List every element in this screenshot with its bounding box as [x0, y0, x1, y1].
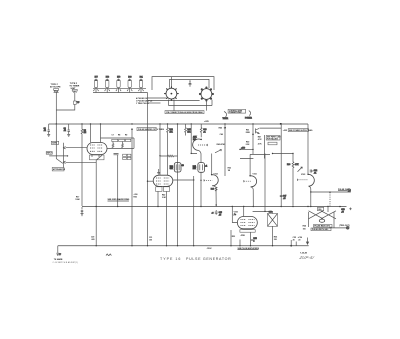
svg-text:B79: B79 [117, 77, 120, 79]
socket caption box [165, 111, 204, 114]
capacitor C6 between sockets [189, 80, 192, 86]
label bias [233, 213, 236, 215]
capacitor C56 [291, 237, 302, 246]
socket wiring loop inner [170, 79, 209, 88]
svg-text:ATTENUATOR: ATTENUATOR [53, 168, 66, 171]
neon lamp B78 [105, 77, 110, 93]
svg-text:TYPE 16: TYPE 16 [160, 257, 181, 261]
input label box [46, 152, 53, 155]
capacitor C11 [114, 154, 119, 207]
transistor Q1 cathode follower [256, 128, 260, 133]
wire T2 down [200, 172, 202, 206]
potentiometer arrow R61 [298, 167, 303, 172]
wire stub R53 [231, 230, 240, 246]
junction dots mid bus [96, 206, 329, 207]
svg-text:100K: 100K [75, 199, 80, 201]
node label 4-pulse out [136, 97, 149, 100]
node grid junction [159, 155, 160, 156]
svg-text:TP: TP [59, 254, 61, 256]
labels R45 [217, 127, 227, 146]
svg-text:B77: B77 [95, 77, 98, 79]
switch SW1 label box [51, 141, 58, 144]
wire dashed drop [329, 192, 330, 207]
svg-text:20: 20 [298, 239, 300, 241]
pointer curve power [245, 111, 252, 120]
wire V3B cathode [212, 186, 217, 207]
wire socket SO1 top feed [170, 77, 172, 88]
resistor R60 [287, 154, 299, 206]
resistor R35 [185, 124, 192, 135]
svg-text:C40: C40 [220, 133, 223, 136]
atten label box [52, 168, 66, 172]
svg-text:.05: .05 [341, 212, 344, 214]
svg-text:.05: .05 [219, 214, 222, 216]
wire long mid [193, 176, 195, 246]
tube T2 [193, 163, 207, 173]
connector J1 [54, 89, 59, 93]
resistor R30 horizontal [160, 155, 178, 157]
wire V2 grid [159, 124, 161, 175]
svg-text:ZUP-5/: ZUP-5/ [298, 255, 315, 260]
resistor R64 [303, 225, 306, 231]
capacitor C62 [310, 170, 317, 175]
neon lamp B79 [116, 77, 121, 93]
svg-text:220: 220 [274, 239, 277, 241]
node see waveform note [108, 198, 131, 201]
wire J2 to J1 line [56, 104, 75, 110]
svg-text:C-10 SWITCH B ADJUST(1): C-10 SWITCH B ADJUST(1) [53, 261, 79, 264]
date [300, 251, 308, 254]
resistor R50 [246, 141, 250, 145]
wire V6 grid up [243, 207, 245, 217]
switch SW1 [63, 143, 65, 168]
svg-text:B78: B78 [106, 77, 109, 79]
tube V1 [87, 143, 107, 155]
svg-text:220K: 220K [246, 132, 251, 134]
title [160, 257, 231, 261]
capacitor C17 [81, 207, 83, 213]
svg-text:B81: B81 [140, 77, 143, 79]
svg-text:+3: +3 [212, 212, 214, 214]
wire bottom bus [58, 245, 309, 247]
svg-text:R25: R25 [134, 196, 137, 198]
ground [157, 169, 160, 175]
power note box [228, 109, 246, 114]
node label trig pulse [136, 103, 150, 105]
svg-text:R9: R9 [125, 135, 127, 137]
svg-text:UNIT: UNIT [71, 88, 77, 90]
svg-text:PULSE RATE CPS: PULSE RATE CPS [314, 225, 330, 228]
pointer curve timer [223, 112, 229, 121]
svg-text:AT SCOPE: AT SCOPE [50, 86, 61, 89]
terminal plus [339, 206, 352, 214]
capacitor C47 [280, 194, 286, 199]
wire C49 down [272, 226, 274, 245]
plate wire lower [107, 138, 134, 148]
svg-text:PULSE WIDTH SEC: PULSE WIDTH SEC [312, 229, 329, 231]
svg-text:V193: V193 [234, 211, 238, 213]
connector pulse out [348, 189, 351, 192]
capacitor C55 [293, 237, 296, 241]
lamp bus upper [93, 88, 146, 90]
wire V6 cathode down [250, 232, 252, 246]
neon lamp B77 [93, 77, 98, 93]
wire V2 left [147, 181, 153, 182]
svg-text:.005: .005 [91, 239, 95, 241]
wire mid vertical [177, 124, 179, 246]
svg-text:S50: S50 [318, 209, 321, 211]
junction dots bottom bus [96, 245, 293, 247]
svg-text:+1: +1 [205, 166, 207, 168]
switch S50 box [318, 207, 324, 211]
neon lamp B81 [138, 77, 143, 93]
svg-text:.05: .05 [283, 198, 286, 200]
wire V5 output [309, 186, 311, 206]
label box pulse width [311, 228, 331, 231]
lamp bus lower [93, 92, 148, 94]
connector J1 label [50, 84, 61, 88]
capacitor C45 [212, 210, 222, 216]
svg-text:R43: R43 [211, 187, 214, 190]
svg-text:FOR VALUES: FOR VALUES [267, 137, 279, 140]
net +225 rail [49, 121, 308, 124]
wire SO2 pin down [205, 100, 207, 110]
wire socket lower bus [169, 100, 213, 106]
socket SO2 [199, 87, 214, 102]
svg-text:TIMER: TIMER [223, 118, 229, 120]
resistor R53 [232, 234, 246, 238]
svg-text:R45: R45 [219, 127, 222, 130]
svg-text:.01: .01 [44, 130, 47, 132]
component labels C7 R8 [112, 135, 128, 137]
tube V3B half [200, 154, 218, 186]
svg-text:B80: B80 [128, 77, 131, 79]
node label pulse samples [136, 99, 153, 102]
power supply note box [283, 129, 313, 133]
net -150V [207, 248, 213, 250]
svg-text:100: 100 [149, 239, 152, 241]
wire cathode follower top [252, 124, 254, 154]
signature [298, 255, 315, 260]
neon lamp B80 [127, 77, 132, 93]
svg-text:V161: V161 [253, 174, 257, 176]
svg-text:R64: R64 [303, 225, 306, 228]
tube T1 [170, 163, 184, 172]
svg-text:V183: V183 [301, 174, 305, 176]
wire lamp return [147, 93, 149, 246]
svg-text:.01: .01 [314, 173, 317, 175]
ground chassis [56, 246, 61, 256]
svg-text:POWER: POWER [245, 118, 252, 120]
wire B+ drop [280, 124, 282, 207]
svg-text:-150V: -150V [207, 248, 213, 250]
resistor R17 [75, 196, 80, 200]
connector J2 [72, 89, 77, 92]
wire mid right vertical [264, 154, 265, 213]
wire mid bus [82, 206, 347, 208]
svg-text:V152: V152 [214, 174, 218, 176]
tube V6 [237, 217, 257, 229]
resistor R8 [112, 142, 114, 149]
wire rail end drop [307, 124, 309, 174]
parts list box [266, 136, 281, 141]
resistor R37 [200, 124, 206, 137]
crystal box C49 [268, 211, 278, 227]
svg-text:100: 100 [303, 228, 306, 230]
resistor R52 [228, 168, 231, 172]
terminal boxes [123, 154, 131, 159]
ground note [53, 258, 79, 264]
ground [81, 214, 84, 216]
wire V2 right [173, 179, 195, 180]
ground [67, 135, 70, 137]
socket SO1 [164, 86, 179, 101]
switch S50 wafer [309, 211, 337, 228]
wire switch to cathode [66, 161, 97, 163]
ground [47, 135, 50, 137]
capacitor C29 label [91, 236, 95, 240]
svg-text:C49: C49 [269, 211, 272, 214]
svg-text:R39: R39 [193, 139, 196, 141]
svg-text:PIN CONNECTIONS AS SEEN FROM R: PIN CONNECTIONS AS SEEN FROM REAR [166, 111, 203, 114]
resistor R47 [258, 135, 262, 140]
svg-text:R42 470K: R42 470K [217, 143, 226, 146]
label V6 [234, 211, 238, 213]
note box pulse shaper [137, 128, 165, 132]
resistor R25 [134, 194, 138, 198]
tube V6 base [240, 230, 255, 233]
svg-text:GATE: GATE [52, 142, 58, 145]
wire trig out [329, 227, 346, 229]
wire SO1 pins down [169, 100, 175, 111]
label C31 [149, 237, 152, 241]
wire V6 plate right [253, 211, 273, 213]
wire trig pulse [148, 102, 161, 104]
connector trig out [346, 227, 349, 230]
svg-text:.01: .01 [203, 131, 206, 133]
resistor R48 [258, 142, 277, 145]
label V3B [214, 174, 218, 176]
resistor R43 [211, 187, 217, 191]
note pulse amplifiers [238, 247, 260, 250]
svg-text:R53: R53 [232, 236, 235, 238]
wire V1 grids to rail [91, 124, 101, 143]
wire V2 cathodes [158, 191, 167, 245]
resistor R5 [81, 124, 86, 206]
wire V3A down [199, 150, 201, 162]
svg-text:20: 20 [293, 239, 295, 241]
svg-text:R8: R8 [118, 135, 120, 137]
svg-text:TK HARB: TK HARB [54, 258, 63, 261]
svg-text:SEE POWER SUPPLY DIAG: SEE POWER SUPPLY DIAG [289, 129, 313, 132]
tube V4A half [244, 154, 257, 186]
wire V4A cathode [251, 187, 254, 207]
tube V5 half [298, 174, 315, 187]
wire V1 cathode down [95, 160, 97, 246]
capacitor C1 [44, 124, 50, 134]
wire +150 tap [239, 148, 253, 150]
label box pulse rate [314, 225, 333, 228]
svg-text:+150: +150 [241, 148, 245, 150]
connector J2 label [69, 83, 79, 90]
wire switch to V1 grid [66, 147, 87, 149]
wire grid switch feed [56, 124, 63, 163]
tube V2 base [156, 187, 170, 192]
wire S50 drop [327, 207, 329, 213]
resistor R1 [74, 93, 81, 105]
tube V2 [153, 175, 173, 186]
svg-text:R60: R60 [287, 164, 290, 166]
svg-text:4 TIMES: 4 TIMES [157, 128, 164, 131]
svg-text:C7: C7 [112, 135, 114, 137]
potentiometer arrow [215, 150, 222, 153]
wire follower to rail drop [260, 127, 282, 129]
waveform mark [106, 254, 111, 256]
wire interstage [272, 153, 294, 154]
wire follower lower [240, 135, 270, 159]
svg-text:2: 2 [253, 240, 254, 242]
resistor R51 [246, 129, 251, 133]
resistor R40 [162, 193, 166, 198]
resistor R33 [167, 124, 174, 175]
wire pulse out [310, 191, 351, 192]
wire input [49, 155, 68, 156]
svg-text:+225: +225 [283, 130, 287, 132]
plate boxes row [112, 139, 131, 141]
wire half tube feed [191, 124, 198, 154]
svg-text:PULSE GENERATOR: PULSE GENERATOR [186, 257, 231, 261]
wire J1 down to rail [55, 92, 57, 124]
wire right vertical [224, 124, 226, 176]
resistor R9 [122, 142, 124, 149]
wire pulse samples to SO2 [148, 100, 200, 102]
wire mid-left long [131, 128, 133, 245]
wire V4 left feed [232, 207, 237, 223]
junction dots on rail [56, 123, 282, 125]
switch rotor [319, 219, 324, 222]
svg-text:C9: C9 [182, 165, 184, 167]
label V5 [301, 174, 305, 176]
chassis arrow [306, 238, 308, 245]
capacitor C2 [64, 124, 70, 134]
node pulse out [338, 189, 350, 191]
svg-text:CONNECTIONS: CONNECTIONS [229, 112, 242, 114]
svg-text:.01: .01 [64, 130, 67, 132]
svg-text:470K: 470K [241, 234, 246, 237]
node trig out [339, 225, 350, 227]
tube V3A half [193, 136, 208, 151]
resistor R56 [274, 236, 277, 240]
plate wire upper [101, 137, 135, 139]
tube V1 base [90, 155, 105, 160]
label V4A [253, 174, 257, 176]
socket wiring loop outer [152, 77, 214, 90]
potentiometer R55 [251, 238, 256, 242]
wire pulse out to SO1 [148, 97, 166, 99]
